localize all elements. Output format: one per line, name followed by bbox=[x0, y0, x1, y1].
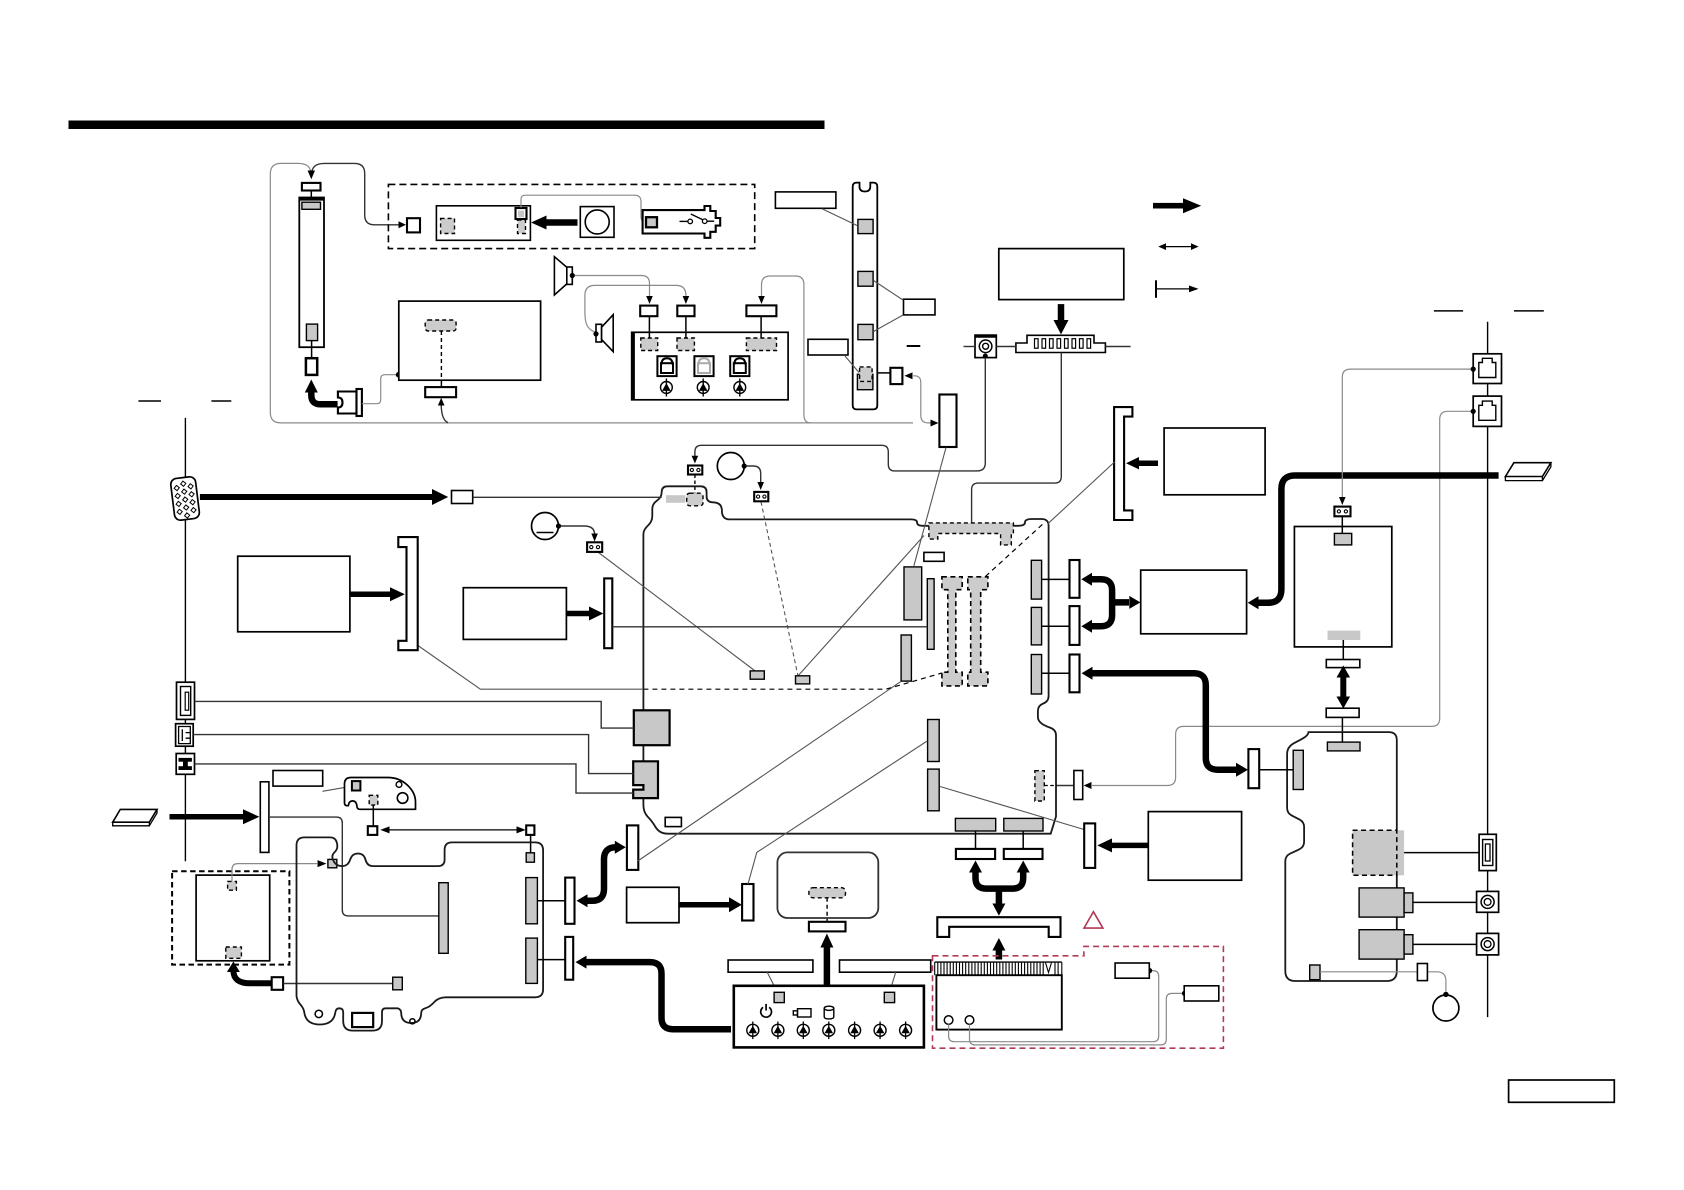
LED symbol 3 bbox=[734, 379, 746, 397]
connector KB pair2 gray bbox=[526, 938, 538, 983]
wire to component bbox=[283, 983, 393, 985]
arrow fan to bracket bbox=[1138, 460, 1158, 466]
wire plug to OSD board bbox=[362, 375, 396, 404]
pad control 1 bbox=[774, 992, 784, 1002]
microphone 2 bbox=[717, 453, 744, 480]
dashed link bbox=[440, 331, 442, 380]
tick marks left bbox=[138, 400, 161, 402]
pad touchpad bottom bbox=[226, 947, 242, 958]
connector modem cable bbox=[1074, 771, 1083, 800]
pad inverter left bbox=[441, 218, 455, 233]
connector ODD bbox=[1084, 823, 1095, 868]
box CCD camera bbox=[580, 207, 614, 238]
icon power bbox=[761, 1007, 772, 1017]
connector keyboard on mobo bbox=[627, 825, 638, 870]
port mic in bbox=[1477, 933, 1499, 955]
speaker left bbox=[554, 257, 566, 295]
connector battery board bbox=[809, 922, 846, 932]
pad audio 2 bbox=[677, 338, 694, 351]
wire modem cable to jack bbox=[1091, 411, 1471, 785]
box LCD cable bbox=[399, 301, 541, 380]
tick mark bbox=[907, 345, 921, 347]
cable palmrest S-arrow2 bbox=[585, 962, 731, 1029]
port audio out bbox=[1477, 891, 1499, 912]
arrow battery to dock bbox=[996, 949, 1003, 960]
cable keyboard S-arrow bbox=[586, 847, 617, 901]
connector KB pair1 gray bbox=[526, 878, 538, 924]
connector touchpad cable bbox=[272, 977, 283, 990]
icon battery cylinder bbox=[824, 1008, 834, 1019]
leader label to trackpad chip bbox=[323, 786, 353, 791]
label box center bbox=[627, 887, 679, 922]
box HDD bbox=[1141, 570, 1247, 634]
box fan2 bbox=[1294, 527, 1391, 647]
wire USB to chip2 bbox=[195, 764, 634, 793]
card PC parallelogram bbox=[1505, 463, 1551, 477]
double arrow vertical bbox=[1340, 675, 1346, 699]
hole big bbox=[397, 793, 408, 804]
battery pack body bbox=[936, 975, 1061, 1029]
leader heatsink connector bbox=[914, 448, 946, 566]
notch frame bottom bbox=[352, 1013, 373, 1027]
connector bottom pair2 white bbox=[1004, 849, 1043, 859]
pad modem dashed on edge bbox=[1035, 771, 1044, 801]
switch symbol bbox=[680, 220, 688, 222]
microphone headset circle bbox=[1433, 995, 1459, 1021]
connector inverter top-right bbox=[516, 208, 527, 219]
panel strip right bbox=[840, 960, 931, 972]
socket CPU I-beam A dashed bbox=[942, 577, 962, 686]
hole palmrest right bbox=[410, 1019, 415, 1024]
rail left bbox=[184, 418, 186, 861]
pad on CPU bump bbox=[666, 495, 685, 503]
label box MS bbox=[273, 771, 323, 787]
board touchpad bbox=[196, 875, 270, 961]
hole small bbox=[396, 782, 402, 788]
hole palmrest left bbox=[315, 1010, 322, 1017]
cable PC card thick bbox=[1257, 476, 1499, 603]
label box keyboard bbox=[463, 588, 566, 640]
wire touchpad to palmrest chip bbox=[232, 864, 317, 882]
pad fan box bottom bbox=[1328, 631, 1361, 640]
wire segments memory row bbox=[964, 346, 976, 348]
wire memory module to edge connector bbox=[972, 353, 1062, 523]
connector KB pair2 white bbox=[565, 937, 573, 980]
connector palmrest mid gray bar bbox=[439, 883, 448, 954]
chip palmrest small bbox=[328, 859, 337, 867]
connector pair1 white bbox=[1070, 560, 1080, 598]
cable LCD plug thick arrow bbox=[311, 392, 337, 405]
module slots bbox=[1035, 339, 1091, 349]
battery teeth notch bbox=[1046, 963, 1052, 973]
speaker right bbox=[596, 324, 602, 342]
connector speaker R bbox=[677, 306, 694, 317]
leader label to pad3 bbox=[874, 315, 904, 332]
port S-video bbox=[1479, 834, 1496, 870]
connector KB pair1 white bbox=[565, 878, 574, 924]
icon adapter bbox=[798, 1009, 812, 1017]
pad in fan box bbox=[1334, 533, 1351, 545]
pad on audio board top bbox=[1327, 742, 1360, 751]
label box latch bbox=[904, 299, 936, 315]
component on edge wire bbox=[665, 817, 681, 826]
connector LCD bottom bbox=[306, 358, 317, 375]
fuse box A bbox=[1115, 963, 1149, 978]
LED symbol 2 bbox=[697, 379, 709, 397]
chip small rect bbox=[924, 552, 944, 561]
wire LCD harness right branch to inverter bbox=[311, 163, 399, 224]
connector speaker L bbox=[640, 306, 657, 317]
bus docking Y thick bbox=[976, 871, 1024, 889]
plug LCD cable bbox=[338, 392, 357, 414]
label box bottom right bbox=[1509, 1080, 1615, 1102]
pad latch 1 bbox=[858, 219, 873, 233]
pad inverter bottom-right bbox=[518, 220, 526, 234]
warning triangle bbox=[1084, 912, 1103, 928]
wire bar to board bbox=[612, 626, 927, 628]
LED symbol 1 bbox=[661, 379, 673, 397]
port icon firewire bbox=[176, 724, 194, 747]
leader docking bracket bbox=[418, 646, 644, 690]
connector media gray bbox=[1293, 750, 1303, 789]
chip trackpad bbox=[352, 781, 361, 790]
panel strip left bbox=[728, 960, 813, 972]
wire MS slot to palmrest bbox=[269, 817, 439, 916]
thick arrow VGA cable bbox=[200, 494, 432, 500]
thick arrow ODD bbox=[1111, 843, 1148, 849]
connector media white bbox=[1248, 749, 1259, 788]
pad latch 3 bbox=[858, 324, 873, 339]
connector bar wide bbox=[904, 567, 922, 620]
jack RJ45 LAN bbox=[1471, 396, 1502, 426]
connector backup battery 2-pin bbox=[688, 466, 702, 475]
tick marks right bbox=[1434, 310, 1463, 312]
thick arrow label to connector bbox=[679, 902, 729, 908]
title underline bar bbox=[69, 121, 825, 130]
link to pad on palmrest bbox=[530, 835, 532, 853]
board battery sub rounded bbox=[777, 852, 878, 918]
wire battery terminal 2 bbox=[970, 993, 1184, 1045]
box ODD bbox=[1148, 812, 1241, 881]
LCD panel bbox=[299, 198, 324, 348]
dashed enclosure inverter bbox=[388, 184, 754, 248]
pad touchpad top bbox=[228, 881, 237, 890]
connector palm sensor bbox=[742, 884, 753, 921]
thick arrow to dock bracket bbox=[350, 592, 390, 598]
leader bracket to board corner bbox=[1048, 462, 1115, 524]
thick arrow memorystick bbox=[170, 814, 244, 820]
connector barB bbox=[928, 769, 940, 811]
connector LCD top bbox=[302, 183, 321, 191]
connector pair3 gray bbox=[1031, 655, 1041, 695]
label box memory bbox=[999, 249, 1124, 300]
wire branch arrow up into connector bbox=[441, 405, 448, 423]
component gray bbox=[393, 977, 403, 990]
cable touchpad thick arrow bbox=[233, 971, 271, 984]
pad trackpad dashed bbox=[369, 795, 378, 805]
connector bottom pair1 white bbox=[956, 849, 995, 859]
connector above audio board bbox=[1326, 708, 1359, 717]
board audio bbox=[632, 332, 788, 400]
connector MS slot bar bbox=[260, 782, 269, 853]
leader palm connector to barA bbox=[748, 741, 927, 884]
legend thin double arrow bbox=[1158, 243, 1198, 250]
connector heatsink tall bbox=[939, 395, 956, 448]
label box mid bbox=[808, 339, 848, 355]
connector bar3 bbox=[901, 635, 911, 681]
cable media bay thick bbox=[1091, 673, 1236, 769]
pad bottom pair1 gray bbox=[955, 818, 995, 831]
ferrite bead bbox=[452, 491, 473, 504]
connector barA bbox=[928, 720, 940, 762]
bracket docking "]" bbox=[398, 537, 417, 650]
pad latch 4 dashed bbox=[857, 374, 873, 389]
thick arrow memory down bbox=[1058, 304, 1065, 321]
leader strip right bbox=[890, 972, 896, 992]
microphone 1 bbox=[532, 513, 559, 540]
connector pair2 white bbox=[1070, 606, 1080, 645]
dashed link modem bbox=[1044, 785, 1057, 787]
wire VGA to board bbox=[473, 496, 662, 498]
module memory bbox=[1016, 335, 1106, 352]
port icon USB bbox=[176, 754, 194, 775]
leader keyboard connector to bar3 bbox=[638, 681, 901, 861]
pad dashed on bump bbox=[687, 493, 703, 506]
connector bar thin bbox=[927, 579, 934, 650]
bracket fan connector bbox=[1114, 407, 1132, 520]
wire mic2 bbox=[747, 466, 761, 483]
connector coax antenna bbox=[975, 335, 996, 358]
dashed link backup battery bbox=[694, 475, 696, 494]
connector below fan box bbox=[1326, 660, 1360, 668]
wire wifi to port bbox=[1404, 852, 1479, 854]
wire coax to backup battery bbox=[695, 358, 985, 471]
pad latch 2 bbox=[858, 271, 873, 286]
rail right bbox=[1487, 322, 1489, 1017]
wire speaker left to connector bbox=[575, 276, 650, 298]
board inverter bbox=[436, 206, 530, 241]
wire to jack connector bbox=[762, 276, 811, 423]
pad power switch bbox=[646, 217, 657, 227]
wire inverter to power switch bbox=[521, 195, 647, 222]
connector below box bbox=[425, 387, 456, 397]
connector pair3 white bbox=[1070, 655, 1080, 693]
power switch board bbox=[643, 206, 721, 238]
node junction on OSD board bbox=[396, 372, 402, 378]
pad mic2 bbox=[796, 676, 810, 684]
dashed link bbox=[826, 898, 828, 922]
connector headphone jack board bbox=[746, 305, 776, 316]
connector docking station bbox=[937, 917, 1060, 937]
pad palmrest top bbox=[526, 853, 534, 862]
wire battery terminal 1 bbox=[949, 971, 1159, 1042]
dashed projection line top bbox=[986, 523, 1045, 577]
chip video (on edge) bbox=[634, 710, 670, 745]
board palmrest bbox=[297, 837, 544, 1030]
chip south bridge (notched) bbox=[633, 761, 658, 798]
connector fan 2-pin bbox=[1334, 507, 1350, 517]
arrow into LCD panel connector bbox=[308, 171, 315, 180]
connector vertical bar bbox=[604, 578, 612, 648]
link lines pairs bbox=[1042, 578, 1070, 580]
bus HDD thick bbox=[1090, 579, 1113, 626]
battery teeth bbox=[935, 962, 1062, 975]
board control panel bbox=[734, 986, 924, 1048]
leader strip left bbox=[767, 972, 777, 992]
leader label to pad2 bbox=[874, 281, 904, 301]
connector mic1 2-pin bbox=[587, 542, 602, 552]
wire LCD harness loop left branch bbox=[270, 163, 913, 423]
pad control 2 bbox=[884, 992, 894, 1002]
card memorystick left bbox=[113, 809, 157, 822]
leader ODD connector to barB bbox=[940, 787, 1084, 830]
thick arrow keyboard bbox=[566, 611, 589, 617]
jack lock icon 2 (gray) bbox=[694, 356, 713, 376]
box fan bbox=[1164, 428, 1265, 495]
leader mic2 dashed to pad bbox=[761, 502, 798, 675]
battery terminal 2 bbox=[965, 1016, 974, 1025]
link pad down bbox=[372, 805, 374, 826]
connector inverter input bbox=[407, 218, 420, 232]
pad audio 1 bbox=[641, 338, 658, 351]
legend line with tick and arrow bbox=[1156, 280, 1199, 298]
connector mic2 2-pin bbox=[754, 492, 768, 501]
pad bottom pair2 gray bbox=[1004, 818, 1043, 831]
dashed projection line bottom bbox=[643, 673, 942, 689]
wire firewire to chip2 bbox=[193, 735, 633, 774]
component inline bbox=[1417, 964, 1427, 981]
connector pair2 gray bbox=[1031, 607, 1041, 645]
leader keyboard connector to edge strip bbox=[797, 536, 924, 678]
leader label to pad4 bbox=[845, 356, 859, 373]
strip latch rail bbox=[853, 183, 878, 410]
board motherboard bbox=[643, 486, 1056, 833]
dashed enclosure touchpad bbox=[172, 871, 289, 964]
jack RJ11 modem bbox=[1471, 354, 1502, 384]
pad LCD top bbox=[302, 202, 321, 209]
link 2pin to pad bbox=[1341, 516, 1343, 533]
jack audio 1 bbox=[1359, 888, 1404, 917]
socket CPU I-beam B dashed bbox=[968, 577, 988, 686]
LED row control bbox=[747, 1022, 912, 1040]
dashed enclosure battery (red) bbox=[933, 946, 1224, 1048]
leader label to pad1 bbox=[822, 209, 857, 226]
pad audio 3 bbox=[746, 338, 776, 351]
module wifi gray bbox=[1353, 830, 1405, 875]
jack lock icon 1 bbox=[657, 356, 676, 376]
pad board bottom-left bbox=[1310, 965, 1320, 980]
pad LCD bottom bbox=[306, 324, 317, 341]
battery terminal 1 bbox=[944, 1016, 953, 1025]
board trackpad buttons bbox=[345, 778, 416, 810]
leader mic1 to pad bbox=[599, 553, 755, 671]
connector pair1 gray bbox=[1031, 560, 1041, 599]
label box top bbox=[775, 192, 836, 208]
wire speaker right to connector bbox=[585, 285, 686, 332]
wire dock to chip1 bbox=[195, 701, 634, 728]
wire RJ11 to fan 2-pin bbox=[1342, 369, 1471, 498]
port icon dock bbox=[177, 682, 195, 719]
wire mic1 bbox=[561, 526, 595, 535]
wire latch to fan connector bbox=[904, 372, 912, 379]
double arrow trackpad link bbox=[368, 826, 378, 835]
legend thick arrow bbox=[1153, 198, 1201, 213]
port VGA bbox=[170, 476, 200, 521]
jack lock icon 3 bbox=[730, 356, 749, 376]
thick arrow control to battery board bbox=[824, 946, 831, 986]
pad battery dashed bbox=[809, 888, 846, 898]
wire to headset mic bbox=[1320, 972, 1446, 992]
node dot bbox=[1443, 992, 1448, 997]
thick arrow CCD to inverter bbox=[546, 219, 578, 226]
board audio IO right bbox=[1285, 732, 1397, 981]
connector card-edge dashed strip bbox=[929, 523, 1014, 545]
label box display bbox=[238, 556, 350, 632]
jack audio 2 bbox=[1359, 930, 1404, 959]
pad mic1 bbox=[750, 671, 764, 679]
link lines bbox=[648, 316, 650, 338]
pad dashed in box bbox=[425, 320, 456, 331]
connector latch switch bbox=[890, 368, 902, 384]
fuse box B bbox=[1184, 986, 1219, 1001]
